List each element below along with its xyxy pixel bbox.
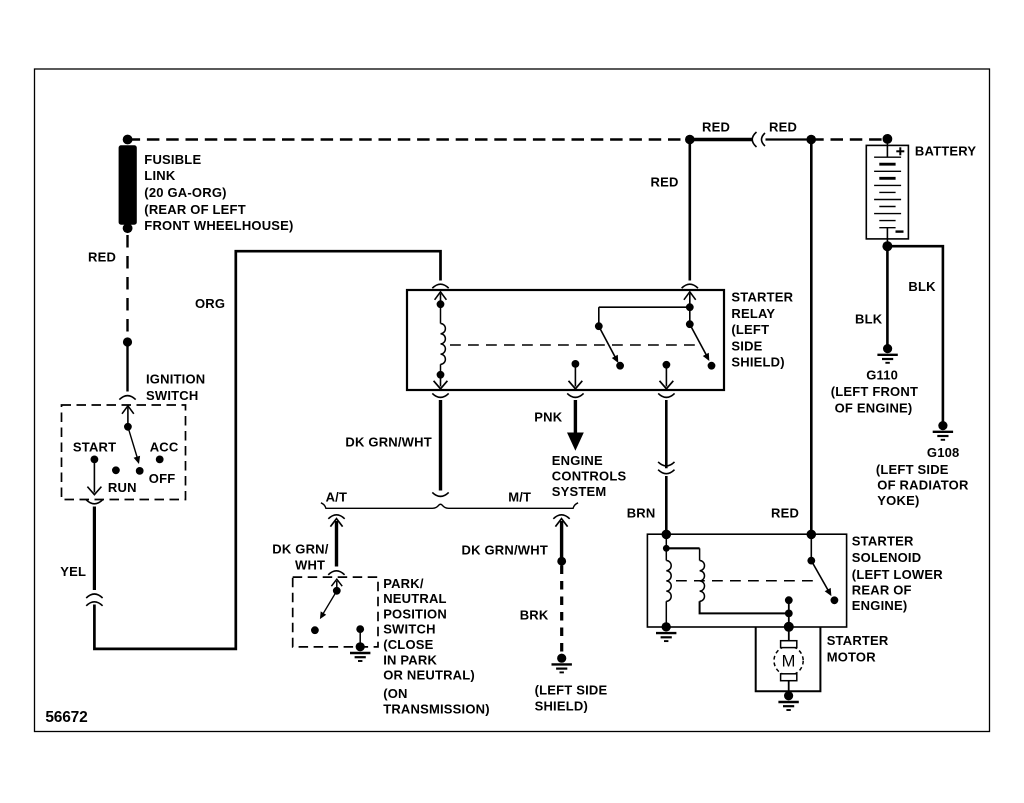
svg-text:BRN: BRN — [627, 506, 656, 521]
wire: DK GRN/WHT A/T branch — [335, 521, 338, 567]
connector cup at ignition switch exit — [86, 500, 102, 504]
svg-text:OF RADIATOR: OF RADIATOR — [877, 478, 969, 493]
relay contact arm A — [599, 326, 616, 359]
connector cup at relay coil entry — [432, 284, 448, 288]
svg-text:RUN: RUN — [108, 480, 137, 495]
ignition switch input pin arrow — [127, 408, 129, 427]
svg-text:(LEFT SIDE: (LEFT SIDE — [876, 462, 949, 477]
ground G110 — [883, 344, 892, 353]
starter solenoid (enclosure) — [647, 534, 846, 627]
svg-text:BRK: BRK — [520, 608, 549, 623]
node: solenoid RED input — [807, 530, 817, 540]
svg-text:DK GRN/: DK GRN/ — [272, 542, 328, 557]
park/neutral position switch S2 (dashed enclosure) — [293, 577, 378, 647]
node J1 (RED rail / relay feed junction) — [685, 135, 695, 145]
ignition switch START output pin arrow — [93, 459, 95, 492]
svg-text:RED: RED — [702, 120, 730, 135]
ignition switch wiper arm — [128, 427, 137, 458]
svg-text:G108: G108 — [927, 445, 960, 460]
svg-text:STARTER: STARTER — [827, 633, 889, 648]
node: P/N switch ground contact — [356, 625, 364, 633]
svg-text:56672: 56672 — [45, 709, 87, 726]
svg-text:OFF: OFF — [149, 471, 176, 486]
svg-text:SOLENOID: SOLENOID — [852, 550, 922, 565]
svg-text:BLK: BLK — [855, 312, 883, 327]
svg-text:BLK: BLK — [908, 279, 936, 294]
wire: dashed RED rail J2 to battery — [811, 138, 887, 140]
relay coil pin (top) arrow — [440, 294, 442, 305]
svg-text:POSITION: POSITION — [383, 606, 447, 621]
starter motor enclosure — [756, 627, 821, 691]
svg-text:SIDE: SIDE — [731, 338, 762, 353]
node: solenoid switch pivot — [807, 557, 815, 565]
svg-text:ACC: ACC — [150, 440, 179, 455]
P/N switch ground lead — [359, 629, 361, 644]
node: relay bus right — [686, 303, 694, 311]
starter relay K1 (enclosure) — [407, 290, 724, 390]
node: M/T splice — [557, 557, 566, 566]
relay coil — [440, 304, 442, 323]
svg-text:YEL: YEL — [60, 564, 86, 579]
svg-text:ENGINE: ENGINE — [552, 453, 603, 468]
wire: solid RED rail J1 to inline connector — [690, 138, 752, 142]
wire: dashed BRK to ground — [560, 566, 563, 653]
wire: RED from J2 down to starter solenoid — [810, 140, 813, 532]
battery + polarity mark — [896, 150, 904, 152]
wire: BLK battery negative to G110 — [886, 246, 889, 345]
svg-text:FRONT WHEELHOUSE): FRONT WHEELHOUSE) — [144, 218, 293, 233]
svg-text:CONTROLS: CONTROLS — [552, 468, 627, 483]
inline connector on RED rail — [752, 132, 756, 147]
solenoid coil 2 — [699, 548, 701, 560]
starter motor M — [788, 627, 790, 642]
relay power pin arrow (from J1 RED) — [689, 294, 691, 308]
wire: BRN from relay to solenoid — [665, 400, 668, 468]
svg-text:(ON: (ON — [383, 686, 407, 701]
svg-text:SHIELD): SHIELD) — [535, 699, 588, 714]
wire: RED into ignition switch — [126, 342, 128, 392]
svg-text:(LEFT LOWER: (LEFT LOWER — [852, 567, 943, 582]
svg-text:LINK: LINK — [144, 168, 176, 183]
svg-text:(LEFT SIDE: (LEFT SIDE — [535, 683, 608, 698]
solenoid switch lead — [810, 534, 812, 560]
connector cup at relay power entry — [682, 284, 698, 288]
contact B throw — [708, 362, 716, 370]
contact (P/N arm throw) — [311, 626, 319, 634]
wire: PNK from relay to engine controls — [574, 400, 577, 433]
svg-text:STARTER: STARTER — [852, 534, 914, 549]
ground (starter motor) — [784, 691, 793, 700]
relay coil pin (bottom) arrow — [440, 375, 442, 387]
battery — [866, 145, 908, 239]
svg-text:NEUTRAL: NEUTRAL — [383, 591, 447, 606]
ground G108 — [938, 421, 947, 430]
svg-text:(CLOSE: (CLOSE — [383, 637, 433, 652]
svg-text:(REAR OF LEFT: (REAR OF LEFT — [144, 202, 246, 217]
fusible link F1 — [119, 145, 137, 224]
contact OFF — [136, 467, 144, 475]
svg-text:FUSIBLE: FUSIBLE — [144, 152, 201, 167]
svg-text:A/T: A/T — [326, 489, 348, 504]
svg-text:G110: G110 — [866, 368, 898, 383]
svg-text:BATTERY: BATTERY — [915, 143, 976, 158]
connector cup at ignition switch entry — [119, 396, 135, 400]
svg-text:SWITCH: SWITCH — [146, 388, 198, 403]
contact A throw — [616, 362, 624, 370]
battery - polarity mark — [896, 230, 904, 232]
node: relay contact B pivot — [686, 320, 694, 328]
svg-text:IN PARK: IN PARK — [383, 652, 437, 667]
solenoid switch arm — [811, 561, 829, 593]
solenoid coil 1 — [666, 561, 671, 602]
node: coil 2 to motor lead — [785, 610, 793, 618]
node: solenoid output to starter motor — [784, 622, 794, 632]
svg-text:RED: RED — [771, 506, 799, 521]
ground (solenoid case) — [662, 622, 671, 631]
wire: YEL from ignition switch START — [93, 507, 96, 591]
contact ACC — [156, 456, 164, 464]
svg-text:ORG: ORG — [195, 296, 225, 311]
relay internal bus — [599, 306, 690, 308]
wire: RED from J1 down to relay — [688, 140, 691, 281]
svg-text:RELAY: RELAY — [731, 306, 775, 321]
wire: RED rail connector to node J2 — [766, 138, 812, 140]
svg-text:SYSTEM: SYSTEM — [552, 484, 607, 499]
svg-text:START: START — [73, 440, 116, 455]
svg-text:IGNITION: IGNITION — [146, 372, 205, 387]
node: relay coil top — [437, 300, 445, 308]
svg-text:RED: RED — [769, 120, 797, 135]
svg-text:SHIELD): SHIELD) — [731, 355, 784, 370]
node: RED wire junction above ignition switch — [123, 337, 132, 346]
wire: BLK battery negative to G108 — [887, 246, 943, 421]
svg-text:DK GRN/WHT: DK GRN/WHT — [345, 435, 432, 450]
node: solenoid coil 1 ground pin — [662, 622, 671, 631]
solenoid dashed actuation line — [676, 580, 817, 582]
starter motor ground lead — [788, 681, 790, 692]
contact RUN — [112, 466, 120, 474]
svg-text:MOTOR: MOTOR — [827, 649, 877, 664]
relay dashed actuation line — [450, 344, 697, 346]
node: ignition switch common — [124, 423, 132, 431]
node: relay PNK pin — [572, 360, 580, 368]
svg-text:ENGINE): ENGINE) — [852, 598, 908, 613]
svg-text:STARTER: STARTER — [731, 290, 793, 305]
wire: dashed RED rail from fusible link to node J1 — [128, 138, 690, 140]
svg-text:OR NEUTRAL): OR NEUTRAL) — [383, 668, 475, 683]
ground (on transmission) — [356, 642, 365, 651]
ignition switch S1 (dashed enclosure) — [62, 405, 186, 500]
svg-text:OF ENGINE): OF ENGINE) — [835, 400, 913, 415]
wire: ORG run to starter relay coil — [94, 251, 440, 649]
svg-text:RED: RED — [88, 250, 116, 265]
contact: solenoid switch throw — [831, 596, 839, 604]
svg-text:TRANSMISSION): TRANSMISSION) — [383, 701, 490, 716]
battery positive terminal node — [883, 134, 893, 144]
svg-text:(LEFT FRONT: (LEFT FRONT — [831, 384, 918, 399]
P/N switch input pin arrow — [336, 581, 338, 591]
svg-text:YOKE): YOKE) — [877, 493, 919, 508]
svg-text:M/T: M/T — [508, 489, 531, 504]
arrow to engine controls system — [567, 433, 584, 451]
svg-text:WHT: WHT — [295, 558, 325, 573]
svg-text:M: M — [782, 653, 796, 671]
connector cups below relay — [432, 393, 448, 397]
svg-text:PNK: PNK — [534, 409, 562, 424]
contact START — [91, 456, 99, 464]
inline connector C100 on YEL wire — [86, 594, 102, 598]
solenoid pull-in coil branch — [665, 534, 667, 560]
node: solenoid contact (motor side) — [785, 596, 793, 604]
svg-text:SWITCH: SWITCH — [383, 622, 435, 637]
node: solenoid BRN input — [662, 530, 672, 540]
svg-text:(LEFT: (LEFT — [731, 322, 769, 337]
wire: DK GRN/WHT from relay — [439, 400, 442, 491]
svg-text:RED: RED — [651, 175, 679, 190]
wire: DK GRN/WHT M/T branch — [560, 521, 563, 558]
svg-text:REAR OF: REAR OF — [852, 583, 912, 598]
node: fusible link top junction — [123, 135, 133, 145]
node: P/N switch pivot — [333, 587, 341, 595]
relay contact arm B — [690, 324, 708, 357]
ground (left side shield) — [557, 654, 566, 663]
wire: dashed RED fusible link to ignition switch — [126, 235, 128, 337]
inline connector on BRN wire — [658, 462, 674, 466]
A/T - M/T option bracket — [321, 503, 578, 509]
battery negative terminal node — [882, 241, 892, 251]
svg-text:(20 GA-ORG): (20 GA-ORG) — [144, 185, 226, 200]
node: relay contact A pivot — [595, 322, 603, 330]
solenoid motor feed lead — [788, 600, 790, 627]
P/N switch arm — [323, 591, 337, 614]
node: solenoid coil splice — [663, 545, 670, 552]
node J2 (RED rail / solenoid feed junction) — [806, 135, 816, 145]
M/T branch connector arrow — [553, 515, 569, 519]
node: relay BRN pin — [663, 361, 671, 369]
svg-text:DK GRN/WHT: DK GRN/WHT — [462, 543, 549, 558]
svg-text:PARK/: PARK/ — [383, 576, 424, 591]
A/T branch connector arrow — [328, 515, 344, 519]
node: relay coil bottom — [437, 371, 445, 379]
